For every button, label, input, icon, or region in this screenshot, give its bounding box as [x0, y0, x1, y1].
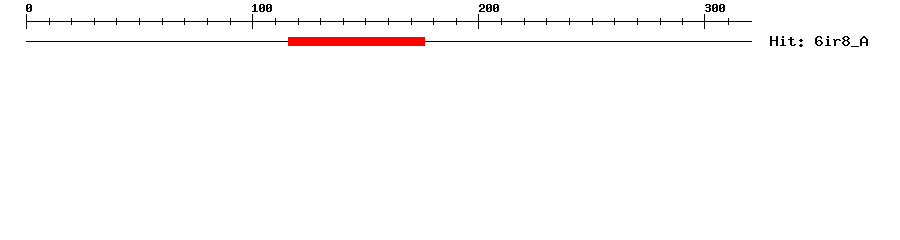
node ruler label "0"	[26, 4, 32, 12]
wire minor tick 240	[569, 18, 570, 25]
wire minor tick 270	[637, 18, 638, 25]
wire minor tick 10	[49, 18, 50, 25]
wire minor tick 230	[546, 18, 547, 25]
wire minor tick 170	[411, 18, 412, 25]
wire minor tick 260	[614, 18, 615, 25]
background	[0, 0, 900, 60]
wire ruler axis line	[26, 21, 752, 22]
wire minor tick 280	[660, 18, 661, 25]
node ruler label "200"	[479, 4, 499, 12]
wire major tick 100	[252, 14, 253, 29]
wire minor tick 20	[71, 18, 72, 25]
wire major tick 300	[704, 14, 705, 29]
wire major tick 200	[478, 14, 479, 29]
wire minor tick 50	[139, 18, 140, 25]
wire minor tick 140	[343, 18, 344, 25]
wire minor tick 160	[388, 18, 389, 25]
wire minor tick 250	[592, 18, 593, 25]
node ruler label "100"	[252, 4, 272, 12]
wire minor tick 150	[365, 18, 366, 25]
wire minor tick 130	[320, 18, 321, 25]
node hit name label "Hit: 6ir8_A"	[770, 36, 868, 47]
wire minor tick 60	[162, 18, 163, 25]
wire minor tick 40	[116, 18, 117, 25]
wire minor tick 310	[728, 18, 729, 25]
wire minor tick 80	[207, 18, 208, 25]
wire minor tick 90	[230, 18, 231, 25]
wire minor tick 290	[682, 18, 683, 25]
wire minor tick 190	[456, 18, 457, 25]
wire query sequence line	[26, 41, 752, 42]
wire major tick 0	[26, 14, 27, 29]
wire minor tick 120	[298, 18, 299, 25]
resistor hit alignment bar	[288, 37, 425, 46]
wire minor tick 70	[184, 18, 185, 25]
wire minor tick 30	[94, 18, 95, 25]
wire minor tick 180	[433, 18, 434, 25]
wire minor tick 220	[524, 18, 525, 25]
node ruler label "300"	[705, 4, 725, 12]
wire minor tick 210	[501, 18, 502, 25]
wire minor tick 110	[275, 18, 276, 25]
